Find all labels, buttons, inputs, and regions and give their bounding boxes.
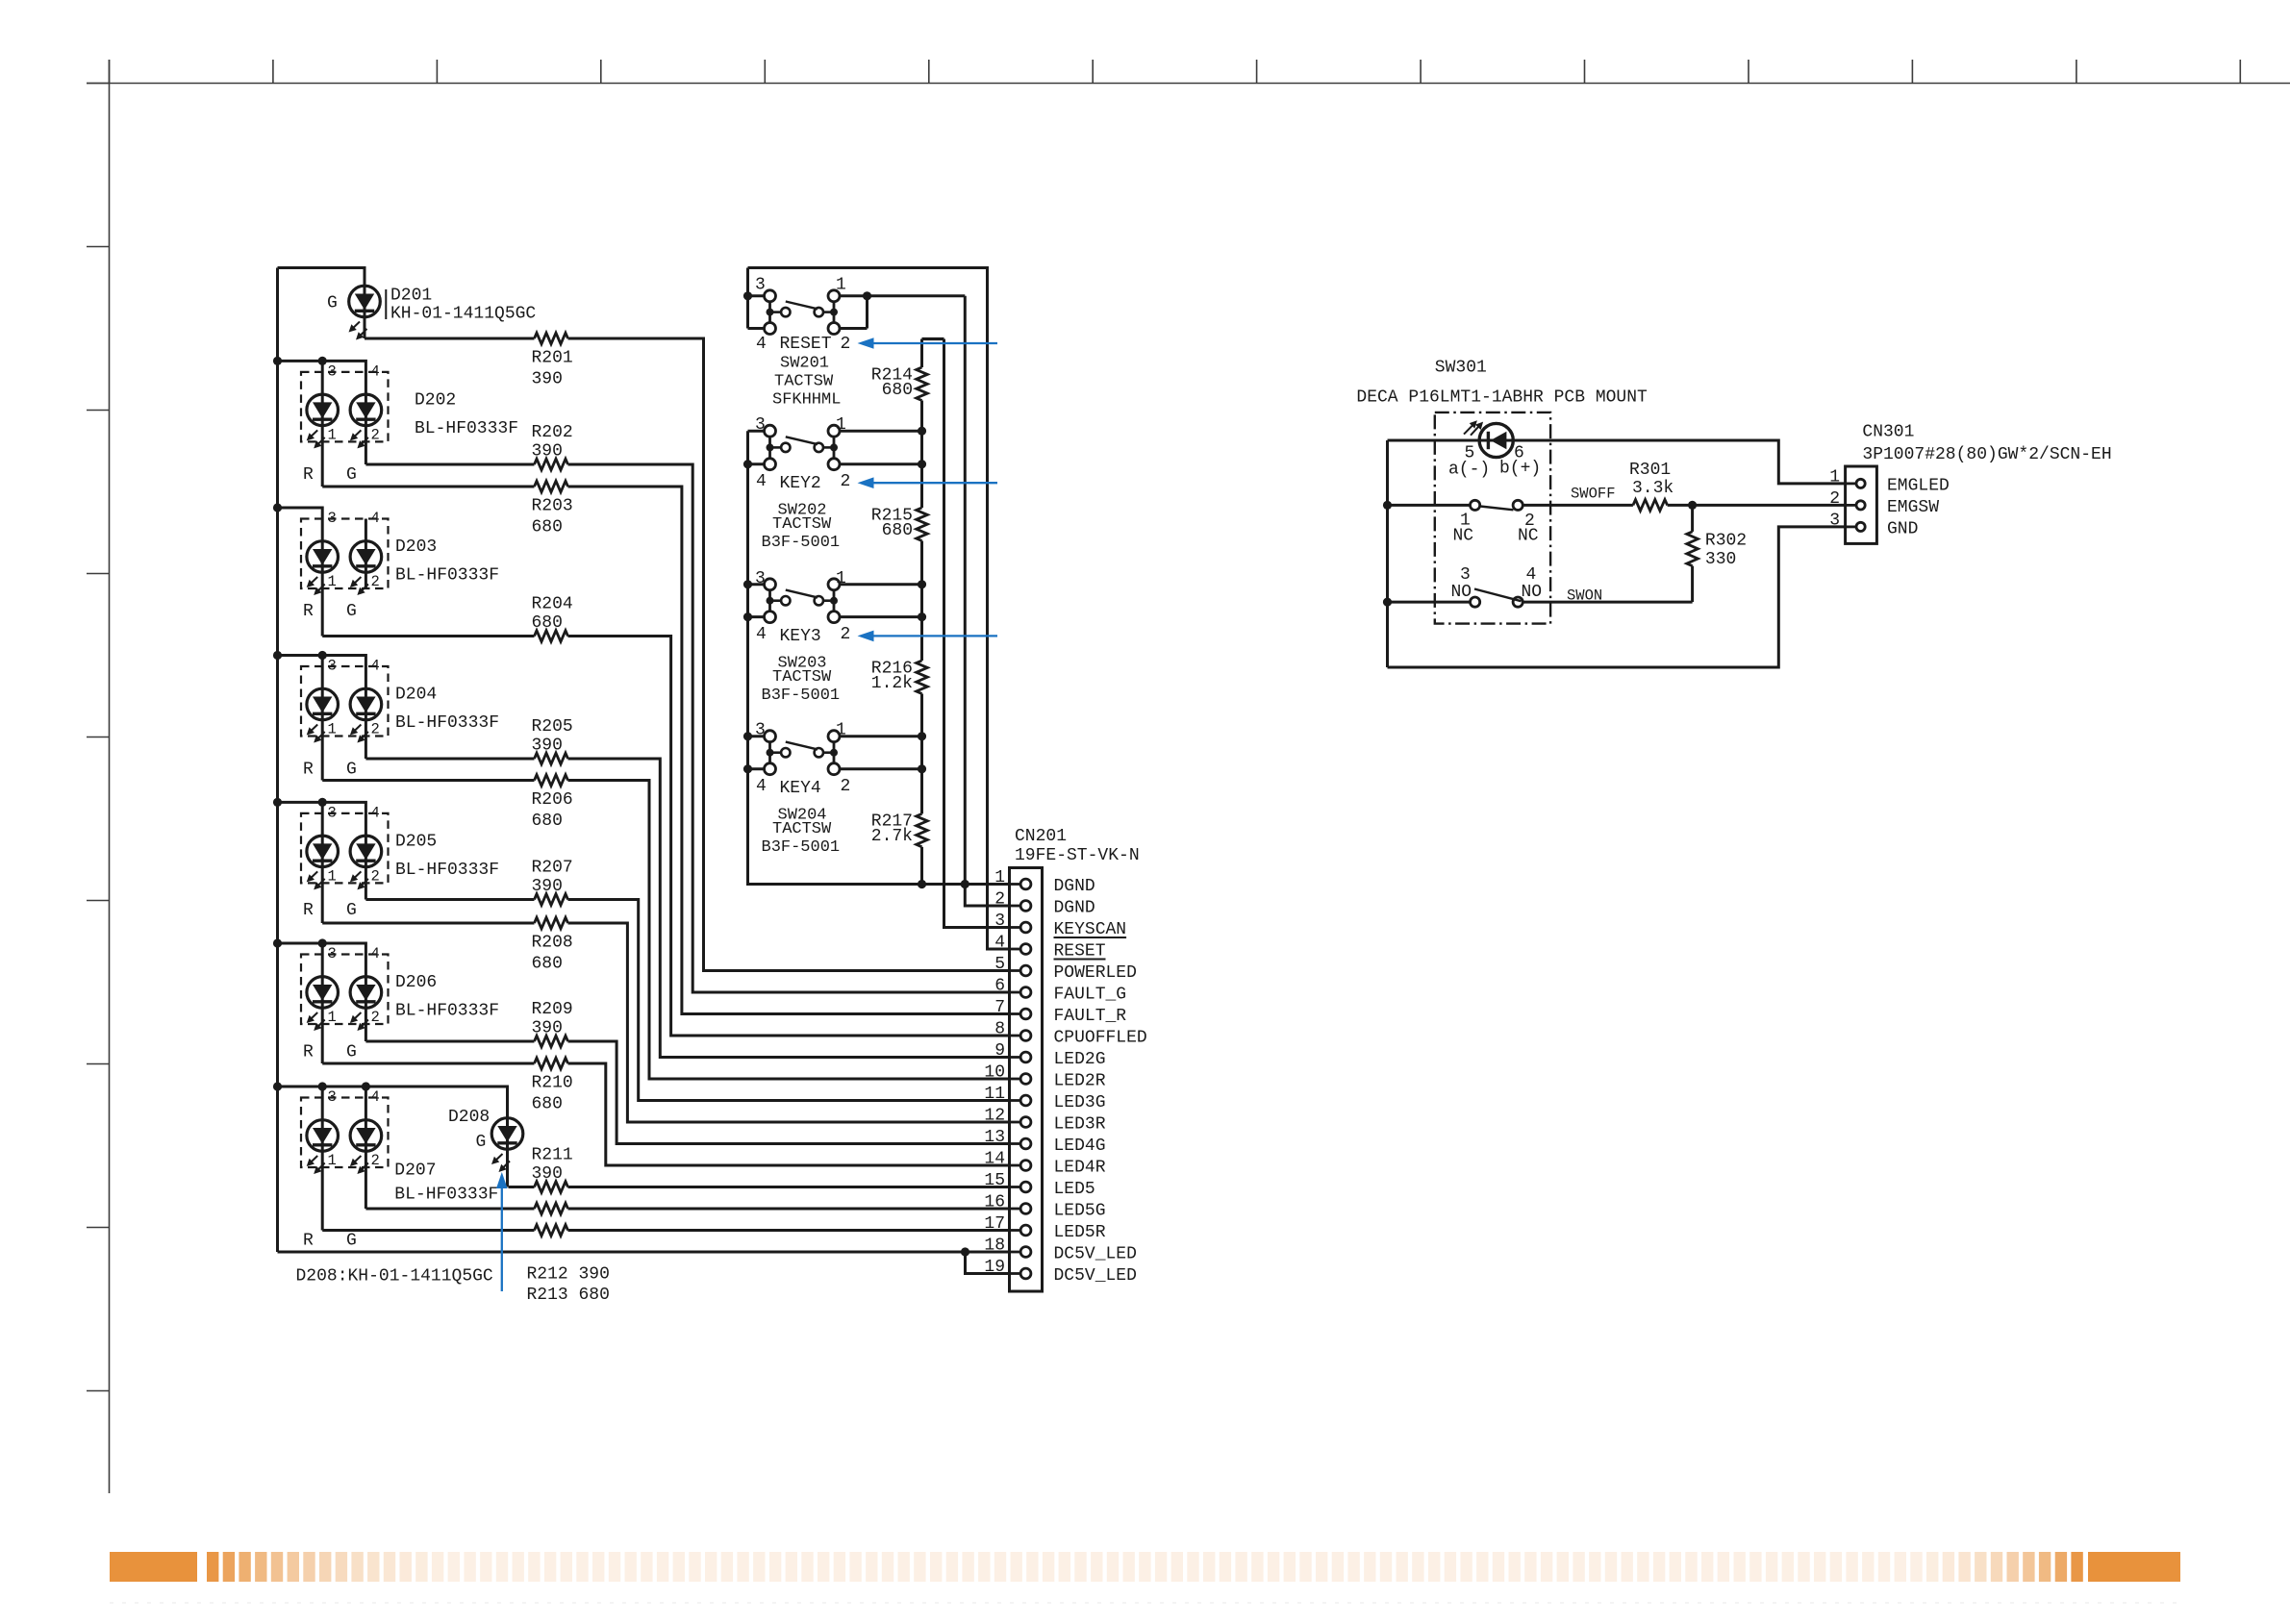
svg-text:1: 1	[836, 415, 846, 435]
svg-text:R: R	[303, 1232, 314, 1251]
svg-text:680: 680	[882, 521, 913, 540]
svg-text:TACTSW: TACTSW	[772, 515, 832, 534]
svg-text:DECA P16LMT1-1ABHR PCB MOUNT: DECA P16LMT1-1ABHR PCB MOUNT	[1356, 388, 1648, 408]
svg-text:3: 3	[755, 721, 766, 740]
svg-text:D208:KH-01-1411Q5GC: D208:KH-01-1411Q5GC	[296, 1267, 493, 1287]
svg-text:680: 680	[532, 812, 563, 831]
svg-text:G: G	[346, 761, 357, 780]
svg-text:CN301: CN301	[1862, 422, 1914, 441]
svg-text:17: 17	[984, 1214, 1005, 1234]
svg-text:EMGSW: EMGSW	[1887, 498, 1939, 517]
svg-text:4: 4	[371, 804, 380, 821]
svg-text:15: 15	[984, 1171, 1005, 1190]
svg-text:390: 390	[532, 877, 563, 896]
svg-text:14: 14	[984, 1150, 1005, 1169]
svg-text:LED4R: LED4R	[1054, 1159, 1106, 1178]
svg-text:680: 680	[532, 955, 563, 974]
svg-text:B3F-5001: B3F-5001	[762, 838, 841, 857]
svg-text:D204: D204	[395, 686, 437, 705]
svg-text:DGND: DGND	[1054, 899, 1095, 918]
svg-text:LED3R: LED3R	[1054, 1115, 1106, 1135]
svg-text:R: R	[303, 1043, 314, 1062]
svg-text:SW301: SW301	[1435, 359, 1487, 378]
svg-text:5: 5	[994, 955, 1005, 974]
svg-text:D203: D203	[395, 537, 437, 557]
svg-text:LED5: LED5	[1054, 1180, 1095, 1199]
svg-text:390: 390	[532, 737, 563, 756]
svg-text:19FE-ST-VK-N: 19FE-ST-VK-N	[1015, 846, 1140, 865]
svg-text:2: 2	[371, 867, 380, 885]
svg-text:9: 9	[994, 1041, 1005, 1061]
svg-text:B3F-5001: B3F-5001	[762, 534, 841, 552]
svg-text:2.7k: 2.7k	[871, 827, 913, 846]
svg-text:G: G	[346, 901, 357, 920]
svg-text:R209: R209	[532, 1000, 573, 1019]
svg-text:12: 12	[984, 1107, 1005, 1126]
svg-text:1: 1	[328, 1152, 337, 1169]
svg-text:390: 390	[532, 442, 563, 462]
svg-text:R202: R202	[532, 423, 573, 442]
svg-text:1: 1	[994, 868, 1005, 887]
svg-text:3.3k: 3.3k	[1632, 479, 1673, 498]
svg-text:BL-HF0333F: BL-HF0333F	[415, 419, 518, 438]
svg-text:BL-HF0333F: BL-HF0333F	[395, 1002, 499, 1021]
svg-text:390: 390	[532, 1164, 563, 1184]
svg-text:4: 4	[371, 1088, 380, 1106]
svg-text:13: 13	[984, 1128, 1005, 1147]
svg-text:NO: NO	[1451, 583, 1472, 602]
svg-text:3: 3	[994, 912, 1005, 931]
svg-text:R205: R205	[532, 717, 573, 737]
svg-text:DC5V_LED: DC5V_LED	[1054, 1266, 1137, 1286]
svg-text:B3F-5001: B3F-5001	[762, 687, 841, 705]
svg-text:LED4G: LED4G	[1054, 1137, 1106, 1156]
svg-text:POWERLED: POWERLED	[1054, 963, 1137, 983]
svg-text:R204: R204	[532, 595, 573, 614]
svg-text:G: G	[346, 602, 357, 621]
svg-text:1.2k: 1.2k	[871, 674, 913, 693]
svg-text:16: 16	[984, 1193, 1005, 1212]
svg-text:R301: R301	[1629, 461, 1671, 480]
svg-text:D207: D207	[394, 1162, 436, 1181]
svg-text:2: 2	[841, 335, 851, 354]
svg-text:SFKHHML: SFKHHML	[772, 391, 841, 410]
svg-text:b(+): b(+)	[1499, 460, 1541, 479]
svg-text:2: 2	[371, 426, 380, 443]
svg-text:19: 19	[984, 1258, 1005, 1277]
svg-text:3: 3	[328, 945, 337, 962]
svg-text:R: R	[303, 901, 314, 920]
svg-text:GND: GND	[1887, 519, 1918, 538]
svg-text:2: 2	[841, 777, 851, 796]
svg-text:R212 390: R212 390	[527, 1265, 610, 1285]
svg-text:1: 1	[836, 276, 846, 295]
svg-text:G: G	[346, 1043, 357, 1062]
svg-text:4: 4	[994, 934, 1005, 953]
svg-text:680: 680	[882, 381, 913, 400]
svg-text:LED5R: LED5R	[1054, 1223, 1106, 1242]
svg-text:4: 4	[756, 625, 767, 644]
svg-text:3: 3	[755, 569, 766, 588]
svg-text:680: 680	[532, 613, 563, 633]
svg-text:R302: R302	[1705, 532, 1747, 551]
svg-text:3: 3	[328, 804, 337, 821]
svg-text:BL-HF0333F: BL-HF0333F	[395, 566, 499, 586]
svg-text:11: 11	[984, 1085, 1005, 1104]
svg-text:6: 6	[994, 977, 1005, 996]
svg-text:NO: NO	[1522, 583, 1543, 602]
svg-text:SWOFF: SWOFF	[1571, 486, 1616, 503]
svg-text:D206: D206	[395, 973, 437, 992]
svg-text:680: 680	[532, 518, 563, 537]
svg-text:4: 4	[371, 658, 380, 675]
svg-text:3: 3	[328, 510, 337, 527]
svg-text:KEY4: KEY4	[780, 779, 821, 798]
svg-text:G: G	[476, 1133, 487, 1152]
svg-text:2: 2	[841, 472, 851, 491]
svg-text:1: 1	[836, 569, 846, 588]
svg-text:TACTSW: TACTSW	[774, 373, 834, 391]
svg-text:LED2G: LED2G	[1054, 1050, 1106, 1069]
svg-text:1: 1	[328, 1009, 337, 1026]
svg-text:680: 680	[532, 1095, 563, 1114]
svg-text:KH-01-1411Q5GC: KH-01-1411Q5GC	[390, 305, 536, 324]
svg-text:SW201: SW201	[780, 355, 829, 373]
svg-text:EMGLED: EMGLED	[1887, 476, 1950, 495]
svg-text:2: 2	[371, 573, 380, 590]
svg-text:TACTSW: TACTSW	[772, 820, 832, 838]
svg-text:1: 1	[328, 867, 337, 885]
svg-text:a(-): a(-)	[1448, 461, 1490, 480]
svg-text:R203: R203	[532, 497, 573, 516]
svg-text:3: 3	[755, 415, 766, 435]
svg-text:NC: NC	[1453, 527, 1474, 546]
svg-text:4: 4	[371, 945, 380, 962]
svg-text:R: R	[303, 602, 314, 621]
svg-text:G: G	[327, 294, 338, 313]
svg-text:2: 2	[371, 721, 380, 738]
svg-text:R: R	[303, 465, 314, 485]
svg-text:2: 2	[994, 890, 1005, 910]
svg-text:2: 2	[1829, 489, 1840, 509]
svg-text:4: 4	[756, 335, 767, 354]
svg-text:1: 1	[328, 426, 337, 443]
svg-text:R: R	[303, 761, 314, 780]
svg-text:3: 3	[328, 362, 337, 380]
svg-text:1: 1	[836, 721, 846, 740]
svg-text:TACTSW: TACTSW	[772, 668, 832, 687]
svg-text:D208: D208	[448, 1108, 490, 1127]
svg-text:BL-HF0333F: BL-HF0333F	[394, 1186, 498, 1205]
svg-text:D205: D205	[395, 832, 437, 851]
svg-text:FAULT_G: FAULT_G	[1054, 986, 1127, 1005]
svg-text:RESET: RESET	[780, 335, 832, 354]
svg-text:BL-HF0333F: BL-HF0333F	[395, 713, 499, 733]
svg-text:LED2R: LED2R	[1054, 1072, 1106, 1091]
svg-text:G: G	[346, 1232, 357, 1251]
svg-text:7: 7	[994, 998, 1005, 1017]
svg-text:3: 3	[328, 658, 337, 675]
svg-text:R211: R211	[532, 1146, 573, 1165]
svg-text:SWON: SWON	[1567, 587, 1602, 605]
svg-text:4: 4	[756, 777, 767, 796]
svg-text:1: 1	[328, 573, 337, 590]
svg-text:1: 1	[1829, 467, 1840, 487]
svg-text:1: 1	[328, 721, 337, 738]
svg-text:390: 390	[532, 1019, 563, 1038]
svg-text:BL-HF0333F: BL-HF0333F	[395, 861, 499, 880]
svg-text:CPUOFFLED: CPUOFFLED	[1054, 1029, 1147, 1048]
svg-text:LED5G: LED5G	[1054, 1202, 1106, 1221]
svg-text:KEY2: KEY2	[780, 474, 821, 493]
svg-text:8: 8	[994, 1020, 1005, 1039]
svg-text:4: 4	[756, 472, 767, 491]
svg-text:3P1007#28(80)GW*2/SCN-EH: 3P1007#28(80)GW*2/SCN-EH	[1862, 445, 2111, 464]
svg-text:R210: R210	[532, 1074, 573, 1093]
svg-text:10: 10	[984, 1063, 1005, 1083]
svg-text:R207: R207	[532, 859, 573, 878]
svg-text:2: 2	[371, 1152, 380, 1169]
svg-text:18: 18	[984, 1237, 1005, 1256]
svg-text:R201: R201	[532, 349, 573, 368]
svg-text:390: 390	[532, 370, 563, 389]
svg-text:3: 3	[328, 1088, 337, 1106]
svg-text:G: G	[346, 465, 357, 485]
svg-text:CN201: CN201	[1015, 827, 1067, 846]
svg-text:330: 330	[1705, 550, 1736, 569]
svg-text:4: 4	[371, 362, 380, 380]
svg-text:KEY3: KEY3	[780, 627, 821, 646]
svg-text:NC: NC	[1518, 527, 1539, 546]
svg-text:2: 2	[371, 1009, 380, 1026]
svg-text:R213 680: R213 680	[527, 1286, 610, 1305]
svg-text:FAULT_R: FAULT_R	[1054, 1007, 1127, 1026]
svg-text:4: 4	[371, 510, 380, 527]
svg-text:2: 2	[841, 625, 851, 644]
svg-text:DGND: DGND	[1054, 877, 1095, 896]
svg-text:R208: R208	[532, 934, 573, 953]
svg-text:3: 3	[755, 276, 766, 295]
svg-text:3: 3	[1829, 511, 1840, 530]
svg-text:R206: R206	[532, 790, 573, 810]
svg-text:D201: D201	[390, 287, 432, 306]
svg-text:DC5V_LED: DC5V_LED	[1054, 1245, 1137, 1264]
svg-text:D202: D202	[415, 390, 456, 410]
svg-text:LED3G: LED3G	[1054, 1093, 1106, 1112]
